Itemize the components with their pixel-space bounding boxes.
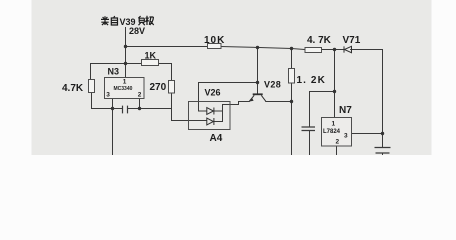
resistor 1.2K [289, 69, 295, 84]
svg-text:V71: V71 [343, 35, 361, 46]
svg-text:L7824: L7824 [323, 129, 341, 135]
A4 box [189, 102, 231, 130]
wire N7 pin3 to right vertical [352, 133, 383, 135]
diode lower in A4 [207, 118, 214, 125]
resistor 270 [169, 81, 175, 94]
IC N7 box [322, 118, 352, 147]
junction N3 pin3 node [111, 107, 114, 110]
svg-text:A4: A4 [210, 133, 223, 144]
svg-text:10K: 10K [204, 35, 225, 46]
wire pin2 stub [139, 99, 141, 109]
svg-text:3: 3 [344, 133, 348, 140]
resistor 10K [208, 44, 222, 49]
svg-text:1. 2K: 1. 2K [297, 75, 326, 86]
wire C3 to pin1 node [310, 92, 335, 156]
svg-text:1: 1 [123, 79, 127, 86]
wire V28 base vertical [257, 48, 259, 95]
diode upper in A4 [207, 108, 214, 115]
来 [101, 16, 109, 25]
svg-text:270: 270 [150, 82, 167, 93]
junction rail / V28 base branch [256, 46, 259, 49]
junction N3 pin2 node [138, 107, 141, 110]
wire 1K branch top [91, 64, 172, 81]
resistor 1K [142, 60, 159, 66]
svg-text:MC3340: MC3340 [114, 86, 133, 92]
svg-text:28V: 28V [129, 26, 145, 36]
wire upper diode anode to base node [199, 83, 258, 112]
capacitor C1 (N3 bottom) [123, 106, 128, 114]
junction N7 pin3 / C4 node [381, 132, 384, 135]
junction 1K wire tap [124, 62, 127, 65]
wire diode cathodes to emitter [214, 102, 249, 122]
svg-text:3: 3 [106, 91, 110, 98]
wire pin3 long drop [112, 99, 114, 156]
svg-text:2: 2 [138, 91, 142, 98]
resistor 4.7K top [305, 48, 322, 53]
svg-text:4.7K: 4.7K [62, 83, 84, 94]
wire right vertical from rail to C4 [382, 50, 384, 148]
junction N7 pin1 / C3 wire [333, 90, 336, 93]
junction V28 base / A4 wire [256, 81, 259, 84]
svg-text:2: 2 [336, 139, 340, 146]
junction rail / 1.2K branch [290, 47, 293, 50]
svg-text:V26: V26 [205, 88, 221, 98]
junction 28V rail tap [124, 45, 127, 48]
IC N3 box [105, 78, 145, 99]
极 [145, 16, 153, 25]
wire bottom node of N3 [92, 108, 172, 110]
wire V28 collector to 1.2K node [266, 101, 292, 103]
负 [138, 16, 144, 25]
wire 270 lower lead to A4 [172, 93, 207, 121]
wire C4 stub [382, 153, 384, 155]
wire N7 pin1 vertical [334, 50, 336, 118]
svg-text:1K: 1K [145, 51, 157, 61]
capacitor C3 plates [302, 127, 316, 131]
resistor 4.7K left [89, 80, 95, 93]
junction rail / N7 pin1 branch [333, 48, 336, 51]
label 来自V39负极 [101, 16, 118, 25]
wire 4.7K left leads [91, 64, 92, 109]
diode V71 [344, 46, 352, 52]
svg-text:4. 7K: 4. 7K [307, 35, 332, 46]
svg-text:V28: V28 [264, 80, 281, 90]
svg-text:N7: N7 [339, 105, 352, 116]
wire 28V vertical feed [125, 28, 127, 78]
自 [111, 16, 117, 25]
wire N7 pin2 stub [336, 146, 338, 155]
capacitor C4 plates [375, 148, 391, 154]
wire 1.2K leads [291, 49, 293, 156]
svg-text:N3: N3 [108, 67, 120, 77]
svg-text:1: 1 [332, 121, 336, 128]
wire top supply rail [126, 47, 383, 50]
transistor V28 [249, 94, 265, 101]
background sheet [0, 0, 456, 155]
junction emitter / 1.2K node [290, 100, 293, 103]
